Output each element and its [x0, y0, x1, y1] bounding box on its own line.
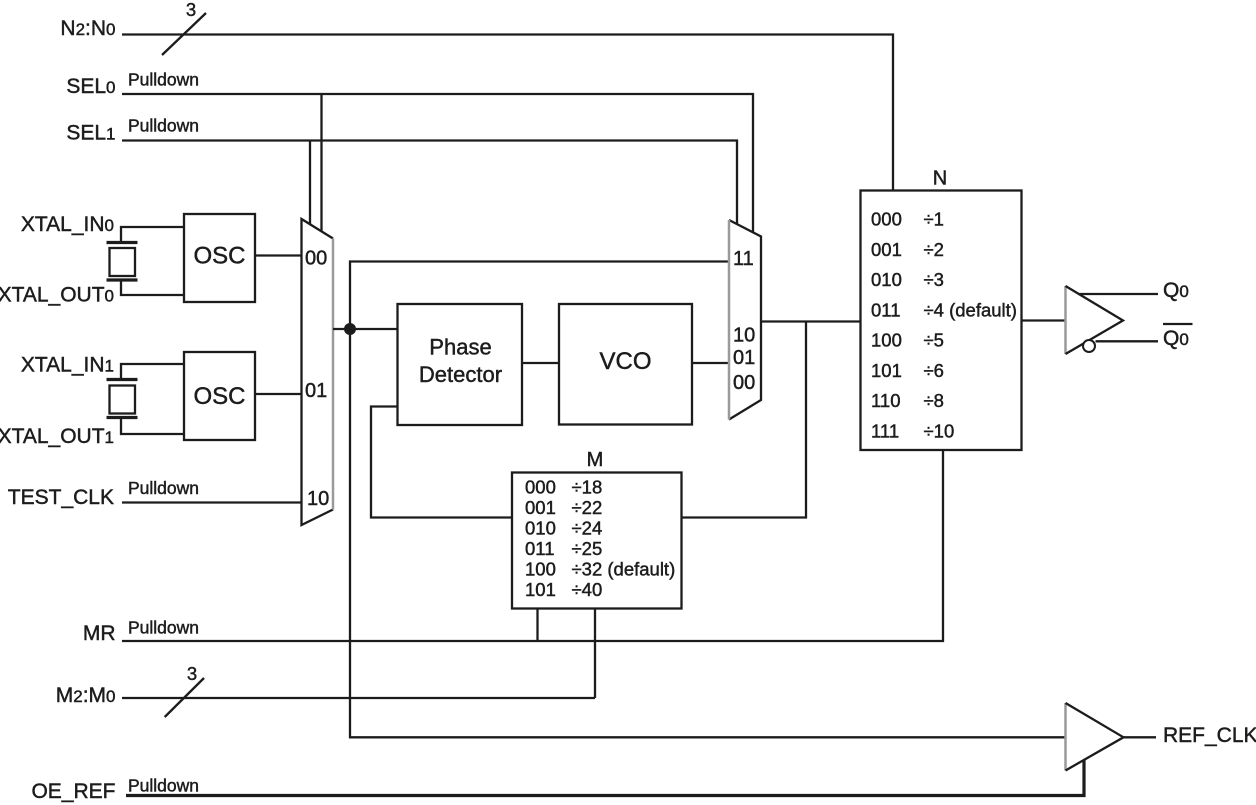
svg-text:Pulldown: Pulldown: [128, 478, 199, 498]
svg-text:011: 011: [871, 299, 901, 320]
svg-text:M2:M0: M2:M0: [56, 684, 116, 707]
wire XTAL_IN0 to OSC0: [121, 227, 184, 243]
oscillator OSC1: [184, 352, 255, 440]
wire output mux to N divider: [761, 320, 861, 322]
svg-text:001: 001: [871, 239, 902, 260]
inversion bubble on Q0 complement output: [1083, 340, 1095, 352]
wire OE_REF enable to REF_CLK buffer: [126, 760, 1084, 796]
svg-text:÷6: ÷6: [924, 360, 944, 381]
wire XTAL_OUT1 to OSC1: [121, 418, 184, 435]
block VCO U3: [559, 304, 692, 425]
svg-text:Q0: Q0: [1163, 327, 1189, 350]
svg-text:00: 00: [733, 372, 755, 394]
svg-text:÷18: ÷18: [572, 477, 603, 498]
svg-text:100: 100: [525, 559, 556, 580]
wire SEL1 to input mux select: [122, 141, 737, 225]
svg-text:101: 101: [871, 360, 902, 381]
wire MR stub into M divider bottom: [536, 609, 538, 642]
svg-text:OSC: OSC: [193, 243, 245, 270]
node OE_REF input label: [31, 776, 199, 804]
svg-text:Detector: Detector: [419, 362, 502, 387]
svg-text:Pulldown: Pulldown: [128, 70, 199, 90]
svg-text:÷1: ÷1: [924, 209, 944, 230]
svg-text:OSC: OSC: [193, 383, 245, 410]
svg-text:010: 010: [525, 518, 556, 539]
wire M2:M0 bus: [122, 697, 595, 699]
wire SEL0 to input mux select: [122, 94, 753, 232]
mux U4 output-select (trapezoid): [729, 220, 761, 420]
svg-text:Pulldown: Pulldown: [128, 776, 199, 796]
svg-text:Phase: Phase: [429, 335, 491, 360]
wire VCO output to output mux 01: [692, 362, 729, 364]
node SEL0 input label: [66, 70, 199, 99]
wire REF_CLK output: [1124, 736, 1157, 738]
svg-text:3: 3: [187, 663, 197, 684]
svg-text:000: 000: [871, 209, 902, 230]
wire reference clock down to REF_CLK buffer: [350, 329, 1066, 737]
divider N block with ratio table: [861, 168, 1022, 451]
svg-text:÷3: ÷3: [924, 269, 944, 290]
svg-text:110: 110: [871, 390, 901, 411]
svg-text:011: 011: [525, 538, 555, 559]
svg-text:SEL0: SEL0: [66, 75, 115, 98]
wire XTAL_OUT0 to OSC0: [121, 280, 184, 295]
svg-text:00: 00: [305, 248, 327, 270]
svg-text:XTAL_IN0: XTAL_IN0: [21, 213, 114, 236]
svg-text:÷32 (default): ÷32 (default): [572, 559, 676, 580]
wire VCO clock branch down to M divider input: [682, 322, 807, 518]
block phase detector U2: [398, 304, 523, 425]
svg-text:M: M: [587, 449, 604, 471]
node MR input label: [83, 618, 199, 646]
wire XTAL_IN1 to OSC1: [121, 364, 184, 380]
wire reference clock feedback to output mux 11: [350, 262, 729, 330]
svg-text:÷24: ÷24: [572, 518, 603, 539]
mux U1 input-select (trapezoid): [302, 219, 334, 525]
svg-text:001: 001: [525, 497, 556, 518]
wire Q0 complement output: [1096, 340, 1159, 342]
svg-text:÷8: ÷8: [924, 390, 944, 411]
svg-text:100: 100: [871, 330, 902, 351]
wire N divider output to Q0 buffer: [1022, 319, 1066, 321]
svg-text:11: 11: [733, 248, 754, 270]
node Q0-bar output label with overline: [1163, 324, 1193, 350]
svg-text:111: 111: [871, 421, 899, 442]
wire M2:M0 bus riser into M divider bottom: [594, 609, 596, 699]
divider M block with ratio table: [512, 449, 682, 609]
wire phase detector to VCO: [522, 362, 559, 364]
crystal Y1: [107, 380, 138, 418]
svg-text:÷40: ÷40: [572, 579, 603, 600]
wire MR net from label to N divider bottom: [122, 450, 943, 641]
svg-text:TEST_CLK: TEST_CLK: [8, 486, 114, 509]
oscillator OSC0: [184, 214, 255, 302]
svg-text:010: 010: [871, 269, 902, 290]
svg-text:÷22: ÷22: [572, 497, 603, 518]
svg-text:000: 000: [525, 477, 556, 498]
wire OSC1 output to input mux 01: [255, 393, 302, 395]
svg-text:VCO: VCO: [599, 348, 651, 375]
wire TEST_CLK to input mux 10: [122, 501, 302, 503]
bus-width slash on M2:M0 (3): [165, 663, 204, 717]
svg-text:MR: MR: [83, 622, 116, 645]
svg-text:XTAL_IN1: XTAL_IN1: [21, 354, 114, 377]
svg-text:01: 01: [733, 347, 755, 369]
node junction dot on reference clock net: [344, 323, 356, 335]
svg-text:SEL1: SEL1: [66, 122, 115, 145]
svg-text:Pulldown: Pulldown: [128, 618, 199, 638]
svg-text:Q0: Q0: [1163, 279, 1189, 302]
wire Q0 true output: [1079, 293, 1158, 295]
svg-text:÷4 (default): ÷4 (default): [924, 299, 1017, 320]
svg-text:XTAL_OUT0: XTAL_OUT0: [0, 284, 114, 307]
node TEST_CLK input label: [8, 478, 199, 509]
svg-text:10: 10: [307, 488, 329, 510]
svg-text:÷2: ÷2: [924, 239, 944, 260]
svg-text:÷5: ÷5: [924, 330, 944, 351]
svg-text:Pulldown: Pulldown: [128, 116, 199, 136]
svg-text:10: 10: [733, 325, 755, 347]
svg-text:REF_CLK: REF_CLK: [1163, 724, 1256, 747]
wire SEL1 branch to output mux select: [309, 141, 311, 225]
svg-text:01: 01: [305, 380, 327, 402]
wire SEL0 branch to output mux select: [320, 94, 322, 231]
bus-width slash on N2:N0 (3): [162, 0, 206, 55]
svg-text:OE_REF: OE_REF: [31, 780, 115, 803]
svg-text:÷25: ÷25: [572, 538, 603, 559]
buffer U5 output driver Q0: [1066, 286, 1124, 354]
wire N2:N0 bus from label to N divider top: [122, 35, 893, 191]
buffer U6 REF_CLK driver: [1066, 703, 1124, 771]
node SEL1 input label: [66, 116, 199, 145]
wire OSC0 output to input mux 00: [255, 254, 302, 256]
crystal Y0: [107, 243, 138, 281]
svg-text:XTAL_OUT1: XTAL_OUT1: [0, 425, 114, 448]
wire M divider feedback into phase detector: [371, 407, 512, 518]
svg-text:3: 3: [186, 0, 196, 20]
wire input mux output to phase detector: [333, 328, 398, 330]
svg-text:N: N: [933, 168, 947, 190]
svg-text:÷10: ÷10: [924, 421, 955, 442]
svg-text:N2:N0: N2:N0: [60, 17, 115, 40]
svg-text:101: 101: [525, 579, 556, 600]
